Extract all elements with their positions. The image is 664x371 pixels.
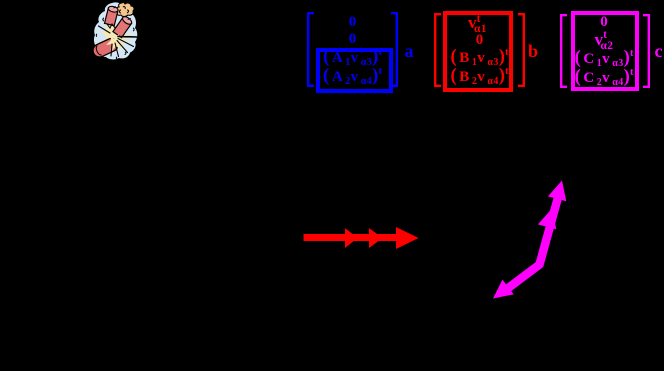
row v^t_a2 bbox=[558, 31, 650, 48]
rays bbox=[99, 26, 138, 57]
right bracket of b bbox=[517, 13, 525, 87]
cracker 1 (top-left) bbox=[105, 5, 119, 26]
bottom arrowhead (points down-left) bbox=[487, 280, 513, 306]
highlight box all rows bbox=[571, 11, 639, 91]
matrix c (magenta) bbox=[558, 8, 650, 10]
blue blob bbox=[94, 2, 137, 59]
cracker 3 (bottom big) bbox=[91, 36, 120, 59]
left bracket of b bbox=[434, 13, 442, 87]
matrix a (blue) bbox=[305, 9, 400, 11]
row (A1 v a3)^t bbox=[305, 48, 400, 67]
top arrowhead (points up, tilted right) bbox=[548, 178, 571, 201]
row (B2 v a4)^t bbox=[432, 67, 527, 86]
second arrowhead below top bbox=[538, 206, 561, 229]
squiggles bbox=[96, 9, 134, 59]
row v^t_a1 bbox=[428, 14, 527, 31]
shaft bbox=[507, 192, 560, 289]
right bracket of c bbox=[642, 14, 650, 88]
right bracket of a bbox=[390, 12, 398, 87]
left bracket of a bbox=[307, 12, 315, 87]
row (C2 v a4)^t bbox=[558, 68, 650, 87]
row 0 bbox=[305, 32, 400, 47]
label b bbox=[528, 42, 538, 60]
magenta bent double arrow bbox=[478, 172, 582, 308]
label c bbox=[655, 42, 663, 60]
highlight box all rows bbox=[443, 11, 513, 92]
cracker 2 (right) bbox=[113, 14, 134, 37]
cream splash over cracker 3 bbox=[106, 32, 125, 51]
matrix b (red) bbox=[432, 7, 527, 9]
left bracket of c bbox=[560, 14, 568, 88]
red triple arrow bbox=[300, 225, 425, 251]
firecracker clipart bbox=[92, 1, 150, 63]
row (C1 v a3)^t bbox=[558, 49, 650, 68]
row 0 bbox=[432, 33, 527, 48]
label a bbox=[405, 42, 414, 60]
highlight box rows 3-4 bbox=[316, 48, 393, 94]
row (A2 v a4)^t bbox=[305, 67, 400, 86]
starburst flare (behind crackers) bbox=[99, 14, 134, 54]
orange puff bbox=[116, 2, 134, 16]
row 0 bbox=[305, 15, 400, 30]
row (B1 v a3)^t bbox=[432, 48, 527, 67]
row 0 bbox=[558, 15, 650, 30]
torn bottom of cracker 1 bbox=[107, 24, 118, 28]
